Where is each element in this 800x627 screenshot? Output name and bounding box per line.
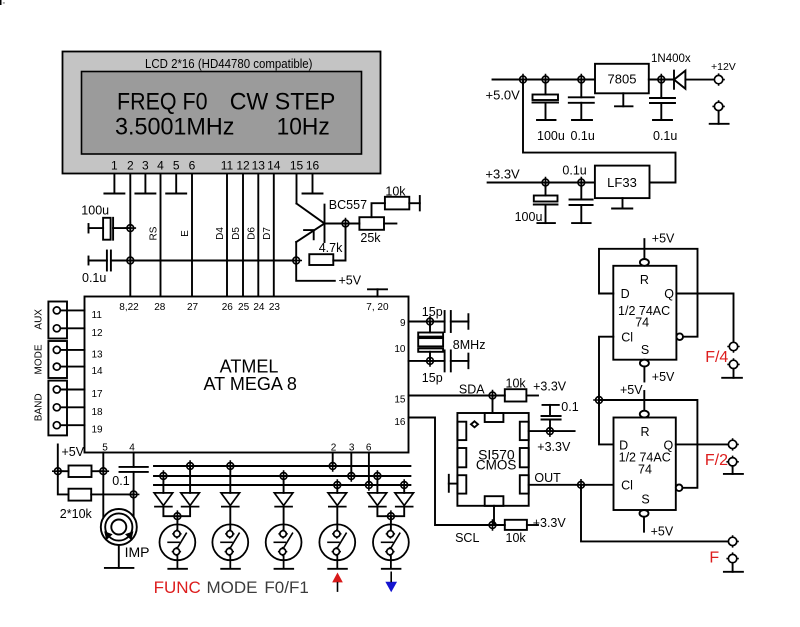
contact BAND3	[53, 422, 60, 429]
svg-text:F: F	[709, 550, 719, 567]
LCD module outer body	[63, 52, 381, 174]
svg-text:+3.3V: +3.3V	[533, 380, 567, 394]
capacitor 100u electrolytic PSU	[545, 80, 547, 95]
svg-text:+5V: +5V	[652, 232, 675, 246]
svg-text:25: 25	[238, 302, 250, 313]
svg-text:F/4: F/4	[705, 349, 728, 366]
svg-text:AUX: AUX	[34, 309, 45, 330]
wire pin9	[409, 321, 445, 323]
SI570 left pin a	[457, 422, 466, 440]
connector MODE	[48, 341, 67, 378]
corner mark	[0, 0, 2, 5]
capacitor 0.1u 3V3	[580, 183, 582, 200]
resistor R 10k b	[69, 489, 92, 501]
power bar pin 7,20	[377, 289, 379, 296]
svg-text:2: 2	[331, 443, 337, 454]
OUT wire	[529, 484, 614, 486]
svg-text:10k: 10k	[385, 184, 406, 198]
ground pin5	[166, 193, 186, 195]
junction 3V3/0.1u	[576, 177, 588, 189]
svg-text:D4: D4	[215, 227, 226, 240]
contact AUX1	[53, 307, 60, 314]
arrow down blue	[386, 582, 396, 591]
svg-text:13: 13	[252, 159, 266, 173]
svg-text:D6: D6	[246, 227, 257, 240]
wire DOWN diode merge	[377, 507, 404, 517]
svg-text:3.5001MHz: 3.5001MHz	[115, 114, 234, 141]
wire F0F1 diode to switch	[283, 507, 285, 531]
svg-text:1: 1	[111, 159, 118, 173]
switch MODE	[212, 524, 248, 568]
svg-text:100u: 100u	[81, 204, 109, 218]
svg-text:FUNC: FUNC	[154, 578, 201, 597]
flip-flop U5 1/2 74AC74	[613, 266, 676, 360]
connector BAND	[48, 381, 67, 436]
capacitor 15p top	[444, 311, 446, 332]
svg-text:28: 28	[154, 302, 166, 313]
wire pin19	[57, 424, 85, 426]
junction rail/LF33 feed	[517, 74, 529, 86]
wire pin14	[57, 366, 85, 368]
junction DOWN merge	[385, 510, 397, 522]
resistor 10k SCL pullup	[505, 520, 527, 530]
contact AUX2	[53, 325, 60, 332]
svg-text:11: 11	[92, 310, 103, 321]
svg-text:+5V: +5V	[620, 383, 643, 397]
svg-text:15p: 15p	[422, 305, 443, 319]
svg-text:+5V: +5V	[62, 445, 85, 459]
ground 7805	[622, 93, 624, 106]
junction pin2/100u	[125, 222, 137, 234]
U5 Cl wire	[599, 337, 614, 445]
ground LF33	[622, 198, 624, 208]
wire pin12	[57, 327, 85, 329]
capacitor 0.1u input	[660, 80, 662, 99]
junction pin2/row1	[327, 460, 339, 472]
svg-text:+5V: +5V	[651, 525, 674, 539]
svg-text:11: 11	[221, 159, 234, 173]
wire UP diode to switch	[336, 507, 338, 531]
svg-text:E: E	[180, 230, 191, 237]
svg-text:MODE: MODE	[34, 344, 45, 374]
svg-text:25k: 25k	[360, 231, 381, 245]
capacitor 100u electrolytic 3V3	[545, 183, 547, 196]
diode DOWN a	[376, 476, 378, 493]
junction emitter node	[290, 255, 302, 267]
svg-text:3: 3	[142, 159, 149, 173]
U5 Qbar bubble	[676, 333, 683, 340]
wire pin2	[332, 453, 334, 467]
svg-text:+3.3V: +3.3V	[485, 167, 520, 182]
SCL wire pin16	[409, 418, 505, 526]
svg-text:CW STEP: CW STEP	[230, 89, 336, 116]
wire pin17	[57, 389, 85, 391]
svg-text:LCD 2*16 (HD44780 compatible): LCD 2*16 (HD44780 compatible)	[145, 56, 313, 71]
ground F/2	[732, 466, 734, 474]
svg-text:24: 24	[253, 302, 265, 313]
LCD pin13 D6 wire	[257, 174, 259, 297]
U6 S-bar bubble	[640, 510, 649, 517]
svg-text:0.1u: 0.1u	[82, 271, 106, 285]
svg-text:Cl: Cl	[621, 331, 633, 345]
U6 Qbar bubble	[676, 485, 683, 492]
LCD pin5 wire	[175, 174, 177, 194]
LCD pin6 E wire to ATmega 27	[191, 174, 193, 297]
LCD pin4 RS wire to ATmega 28	[160, 174, 162, 297]
junction pin10/crystal	[424, 355, 436, 367]
flip-flop U6 1/2 74AC74	[614, 418, 676, 511]
wire to LF33 output	[523, 80, 676, 183]
+5V stub wire	[296, 261, 335, 281]
contact MODE2	[53, 363, 60, 370]
bus line row3 pin6	[154, 484, 410, 486]
switch FUNC	[160, 524, 196, 568]
svg-text:R: R	[640, 273, 649, 287]
junction U5 Cl / U6 loop	[593, 394, 605, 406]
SI570 pin1 mark	[471, 421, 478, 427]
svg-text:12: 12	[236, 159, 250, 173]
junction row1/MODE	[225, 460, 237, 472]
+5V stub U6 bottom	[643, 517, 645, 532]
wire pin11	[57, 309, 85, 311]
capacitor 0.1 pin4	[133, 453, 135, 467]
regulator U3 LF33	[595, 166, 650, 199]
ground pin1	[104, 193, 124, 195]
wire pin13	[57, 349, 85, 351]
svg-text:F0/F1: F0/F1	[264, 578, 308, 597]
svg-text:12: 12	[92, 328, 104, 339]
junction pin3/row2	[346, 470, 358, 482]
ground pin16	[303, 193, 323, 195]
LCD pin3 wire	[144, 174, 146, 194]
wire pin18	[57, 406, 85, 408]
svg-text:S: S	[641, 343, 649, 357]
wire pin10	[409, 360, 445, 362]
svg-text:74: 74	[635, 315, 649, 329]
junction FUNC merge	[172, 510, 184, 522]
SI570 left pin c	[457, 475, 466, 493]
svg-text:Q: Q	[664, 287, 674, 301]
+5V feed wire	[58, 445, 69, 495]
svg-text:0.1u: 0.1u	[653, 129, 677, 143]
+5V stub U6 top	[643, 391, 645, 411]
svg-text:Cl: Cl	[621, 479, 633, 493]
junction pin5/R1	[98, 465, 110, 477]
ground 0.1u 3V3	[572, 222, 591, 224]
svg-text:OUT: OUT	[534, 471, 561, 485]
junction row3/UP	[332, 479, 344, 491]
LCD pin11 D4 wire	[226, 174, 228, 297]
svg-text:4.7k: 4.7k	[319, 241, 343, 255]
svg-text:7805: 7805	[608, 72, 637, 87]
svg-text:RS: RS	[149, 226, 160, 240]
SI570 bottom pin	[485, 496, 504, 506]
svg-text:AT MEGA 8: AT MEGA 8	[204, 374, 297, 394]
svg-text:74: 74	[638, 463, 652, 477]
switch F0/F1	[266, 524, 302, 568]
SDA wire pin15	[409, 395, 505, 397]
U6 R-bar bubble	[640, 411, 649, 418]
pin labels bottom	[102, 443, 372, 454]
arrow up red	[333, 574, 342, 582]
svg-text:15p: 15p	[422, 371, 443, 385]
wire pin6	[368, 453, 370, 486]
svg-text:F/2: F/2	[705, 452, 728, 469]
capacitor 100u electrolytic	[88, 224, 90, 233]
terminal F a	[726, 535, 738, 547]
svg-text:0.1: 0.1	[112, 474, 129, 488]
terminal F/4 b	[727, 358, 739, 370]
junction 3V3/100u	[540, 177, 552, 189]
LCD pin1 wire	[113, 174, 115, 194]
resistor 4.7k	[309, 254, 333, 265]
svg-text:7, 20: 7, 20	[366, 302, 389, 313]
wire pin3	[350, 453, 352, 477]
svg-text:18: 18	[92, 407, 104, 418]
junction base/4.7k	[340, 218, 352, 230]
junction rail/0.1u	[576, 74, 588, 86]
capacitor 0.1u PSU	[580, 80, 582, 98]
svg-text:6: 6	[189, 159, 196, 173]
diode FUNC a	[162, 476, 164, 493]
wire SDA to SI570	[492, 396, 494, 414]
svg-text:2*10k: 2*10k	[60, 507, 93, 521]
terminal F b	[726, 552, 738, 564]
svg-text:4: 4	[157, 159, 164, 173]
+5.0V rail wire	[493, 79, 596, 81]
svg-text:16: 16	[394, 417, 406, 428]
junction SDA	[487, 390, 499, 402]
crystal X1 8MHz	[429, 322, 431, 333]
ground 0.1u input	[653, 119, 672, 121]
SI570 right pin c	[520, 475, 529, 493]
U5 Q wire	[676, 294, 733, 343]
svg-text:26: 26	[222, 302, 234, 313]
LCD pin12 D5 wire	[242, 174, 244, 297]
U6 Q wire	[676, 443, 729, 445]
svg-text:SDA: SDA	[459, 383, 485, 397]
7805 output wire	[649, 79, 674, 81]
svg-text:+12V: +12V	[711, 61, 736, 73]
diode MODE	[229, 466, 231, 493]
wire OUT to F	[581, 485, 729, 542]
SI570 top pin	[485, 413, 504, 422]
svg-text:+5V: +5V	[339, 274, 362, 288]
+5V stub U5 top	[643, 239, 645, 259]
SI570 right pin a	[520, 422, 529, 440]
svg-text:8MHz: 8MHz	[453, 338, 486, 352]
LCD pin15 wire	[296, 174, 298, 204]
svg-text:10k: 10k	[506, 377, 527, 391]
diode F0F1	[283, 476, 285, 493]
regulator U2 7805	[595, 64, 649, 94]
pin labels top	[119, 302, 389, 313]
svg-text:10k: 10k	[506, 531, 527, 545]
LCD pin2 wire to ATmega 8,22	[129, 174, 131, 297]
svg-text:13: 13	[92, 349, 104, 360]
resistor 10k SDA pullup	[505, 389, 527, 401]
ground pin3	[135, 193, 155, 195]
LCD screen inner	[82, 72, 362, 155]
diode DOWN b	[403, 485, 405, 493]
svg-text:1N400x: 1N400x	[651, 53, 691, 65]
base wire	[325, 223, 360, 225]
svg-text:27: 27	[187, 302, 199, 313]
LCD pin numbers	[111, 159, 319, 173]
svg-text:14: 14	[92, 366, 104, 377]
IC U4 SI570	[457, 413, 528, 506]
junction pin2/0.1u	[125, 255, 137, 267]
contact MODE1	[53, 346, 60, 353]
junction vdd/cap	[544, 425, 556, 437]
ground 0.1u	[572, 119, 592, 121]
U6 loop +5V wire	[599, 400, 697, 488]
svg-text:0.1u: 0.1u	[562, 163, 586, 177]
potentiometer 25k	[359, 217, 384, 230]
svg-text:15: 15	[394, 395, 406, 406]
svg-text:+5V: +5V	[652, 370, 675, 384]
diode D1 1N400x	[673, 71, 675, 89]
svg-text:15: 15	[290, 159, 304, 173]
wire diode to +12V	[685, 79, 714, 81]
svg-text:D7: D7	[262, 227, 273, 240]
junction OUT	[575, 479, 587, 491]
svg-text:100u: 100u	[537, 129, 565, 143]
encoder ground	[118, 545, 120, 568]
junction SCL	[487, 519, 499, 531]
svg-text:MODE: MODE	[207, 578, 258, 597]
svg-text:FREQ F0: FREQ F0	[117, 89, 208, 116]
LCD pin14 D7 wire	[273, 174, 275, 297]
rotary encoder IMP	[101, 509, 137, 545]
junction row3/DOWNb	[398, 479, 410, 491]
+5V rail wire	[111, 260, 296, 262]
capacitor 0.1u	[88, 257, 90, 265]
terminal 12V return	[712, 100, 724, 112]
svg-text:9: 9	[400, 318, 406, 329]
pin labels right	[394, 318, 406, 428]
terminal F/2 b	[726, 456, 738, 468]
svg-text:D5: D5	[231, 227, 242, 240]
svg-text:+3.3V: +3.3V	[533, 516, 567, 530]
svg-text:0.1u: 0.1u	[571, 129, 595, 143]
junction row2/DOWNa	[372, 470, 384, 482]
U5 S-bar bubble	[640, 360, 649, 367]
switch DOWN	[373, 524, 409, 568]
U5 D feedback loop wire	[599, 249, 698, 337]
junction row1/FUNCb	[184, 460, 196, 472]
SI570 left pin b	[457, 448, 466, 467]
svg-text:0.1: 0.1	[561, 400, 578, 414]
diode UP	[336, 485, 338, 493]
resistor R 10k a	[69, 466, 92, 478]
terminal F/4 a	[727, 340, 739, 352]
connector AUX	[48, 302, 67, 339]
ground 12V return	[718, 111, 720, 124]
terminal F/2 a	[726, 438, 738, 450]
svg-text:D: D	[621, 287, 630, 301]
svg-text:10: 10	[394, 344, 406, 355]
junction row2/FUNCa	[158, 470, 170, 482]
ground 100u	[537, 119, 556, 121]
svg-text:+3.3V: +3.3V	[537, 440, 571, 454]
resistor 10k	[385, 197, 409, 210]
terminal +12V	[712, 73, 724, 85]
svg-text:8,22: 8,22	[119, 302, 139, 313]
diode FUNC b	[189, 466, 191, 493]
svg-text:LF33: LF33	[607, 175, 637, 190]
wire SI570 scl pin	[493, 506, 495, 525]
ground 100u 3V3	[537, 222, 555, 224]
+3.3V rail wire	[488, 182, 595, 184]
LCD pin16 wire	[312, 174, 314, 194]
ground F/4	[733, 369, 735, 378]
junction pin9/crystal	[424, 316, 436, 328]
svg-text:BC557: BC557	[329, 198, 367, 212]
svg-text:2: 2	[127, 159, 134, 173]
capacitor 0.1 SI570	[549, 420, 551, 432]
svg-text:14: 14	[267, 159, 281, 173]
svg-text:+5.0V: +5.0V	[486, 88, 521, 103]
U5 R-bar bubble	[640, 259, 649, 266]
wire SI570 vdd	[529, 430, 575, 432]
pin labels left	[92, 310, 104, 436]
bus line row1 pin2	[154, 465, 410, 467]
wire MODE diode to switch	[229, 507, 231, 531]
junction rail/100u	[540, 74, 552, 86]
svg-text:S: S	[641, 493, 649, 507]
svg-text:SCL: SCL	[455, 531, 479, 545]
transistor Q1 BC557	[296, 204, 324, 261]
svg-text:BAND: BAND	[34, 393, 45, 421]
junction 7805/diode	[656, 74, 668, 86]
junction pin6/row3	[363, 479, 375, 491]
svg-text:23: 23	[269, 302, 281, 313]
svg-text:10Hz: 10Hz	[277, 114, 330, 141]
SI570 right pin b	[520, 448, 529, 467]
svg-text:R: R	[640, 425, 649, 439]
svg-text:16: 16	[306, 159, 320, 173]
crystal stub	[448, 475, 450, 492]
svg-text:IMP: IMP	[125, 544, 150, 560]
capacitor 15p bottom	[444, 350, 446, 371]
svg-text:CMOS: CMOS	[476, 458, 517, 473]
svg-text:19: 19	[92, 425, 104, 436]
junction row2/F0F1	[278, 470, 290, 482]
svg-text:17: 17	[92, 389, 104, 400]
svg-text:5: 5	[173, 159, 180, 173]
ground F	[732, 563, 734, 572]
switch UP	[319, 524, 355, 568]
bus line row2 pin3	[154, 475, 410, 477]
IC U1 ATmega8 box	[85, 297, 409, 453]
junction +5V/R1	[52, 465, 64, 477]
wire FUNC diode merge	[163, 507, 190, 517]
+5V stub U5 bottom	[643, 367, 645, 382]
contact BAND1	[53, 386, 60, 393]
junction pin4/R2	[128, 489, 140, 501]
svg-text:100u: 100u	[515, 210, 543, 224]
wire pin5 to encoder	[102, 453, 104, 518]
contact BAND2	[53, 404, 60, 411]
